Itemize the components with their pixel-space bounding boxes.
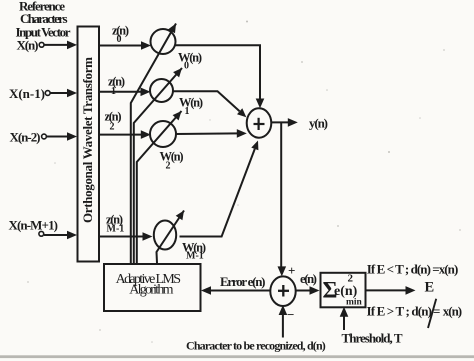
svg-text:1: 1 xyxy=(185,106,190,117)
svg-text:X(n): X(n) xyxy=(17,38,39,53)
svg-text:Orthogonal Wavelet Transform: Orthogonal Wavelet Transform xyxy=(80,57,95,223)
svg-text:2: 2 xyxy=(166,161,171,172)
svg-text:1: 1 xyxy=(111,86,116,97)
svg-text:Algorithm: Algorithm xyxy=(129,283,173,298)
svg-text:W(n): W(n) xyxy=(178,51,202,65)
svg-text:+: + xyxy=(288,263,295,278)
svg-text:0: 0 xyxy=(184,61,189,72)
svg-text:e(n): e(n) xyxy=(300,271,317,286)
svg-text:0: 0 xyxy=(117,34,122,45)
svg-text:x(n): x(n) xyxy=(443,304,462,319)
svg-text:y(n): y(n) xyxy=(309,116,328,131)
svg-text:2: 2 xyxy=(348,273,354,285)
svg-text:=: = xyxy=(433,304,440,319)
svg-text:X(n-2): X(n-2) xyxy=(10,130,41,145)
svg-text:X(n-M+1): X(n-M+1) xyxy=(9,218,59,233)
svg-text:X(n-1): X(n-1) xyxy=(9,86,45,101)
svg-text:Character to be recognized, d(: Character to be recognized, d(n) xyxy=(186,339,326,353)
svg-text:M-1: M-1 xyxy=(186,251,204,262)
svg-text:W(n): W(n) xyxy=(179,96,203,110)
svg-text:Error e(n): Error e(n) xyxy=(220,274,266,289)
svg-text:E: E xyxy=(425,280,435,296)
svg-text:min: min xyxy=(346,298,363,308)
svg-text:Threshold, T: Threshold, T xyxy=(342,331,403,346)
svg-text:2: 2 xyxy=(110,122,115,133)
svg-text:If E < T ; d(n) =x(n): If E < T ; d(n) =x(n) xyxy=(367,262,459,277)
svg-text:M-1: M-1 xyxy=(107,224,125,235)
svg-text:−: − xyxy=(287,307,294,322)
svg-text:If E > T ; d(n): If E > T ; d(n) xyxy=(367,304,433,319)
svg-text:W(n): W(n) xyxy=(160,150,184,164)
